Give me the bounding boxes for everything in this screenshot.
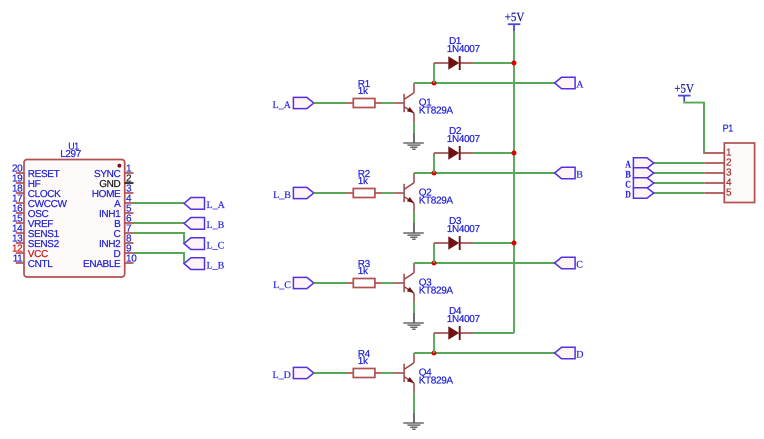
label 1k (R1 value) <box>358 86 369 97</box>
IC U1 pin 8 (INH2) stub + number + name <box>99 234 133 251</box>
svg-text:1k: 1k <box>358 176 369 187</box>
svg-text:L_C: L_C <box>273 280 291 291</box>
net flag A (at P1) <box>625 158 653 171</box>
svg-text:10: 10 <box>126 254 137 265</box>
IC U1 pin 16 (OSC) stub + number + name <box>12 204 49 221</box>
resistor R4 1k <box>347 369 383 378</box>
diode D3 1N4007 <box>434 236 473 250</box>
resistor R1 1k <box>347 99 383 108</box>
net flag L_C (input, stage 3) <box>273 277 314 290</box>
svg-text:A: A <box>576 80 584 91</box>
IC U1 pin 18 (CLOCK) stub + number + name <box>12 184 61 201</box>
ground symbol (stage 4) <box>403 413 424 429</box>
IC U1 pin 12 (VCC) stub + number + name <box>12 244 48 261</box>
label 1N4007 (D3 value) <box>447 224 481 235</box>
connector P1 body <box>724 143 754 203</box>
svg-text:L_A: L_A <box>207 200 226 211</box>
svg-text:+5V: +5V <box>674 82 694 96</box>
label Q2 <box>419 187 432 198</box>
label R3 <box>358 259 371 270</box>
wire Q4 collector node to output flag D <box>414 352 555 354</box>
IC U1 pin 17 (CWCCW) stub + number + name <box>12 194 68 211</box>
label R4 <box>358 349 371 360</box>
label 1k (R4 value) <box>358 356 369 367</box>
wire collector node up to D4 anode <box>433 333 435 353</box>
label 1k (R3 value) <box>358 266 369 277</box>
wire L_A flag to R1 <box>314 102 347 104</box>
IC U1 pin 7 (C) stub + number + name <box>114 224 134 241</box>
wire Q1 collector node to output flag A <box>414 82 555 84</box>
junction Q3 collector node <box>432 261 437 266</box>
power symbol +5V (middle) <box>505 10 525 31</box>
IC U1 pin 20 (RESET) stub + number + name <box>12 164 60 181</box>
svg-text:KT829A: KT829A <box>419 196 454 207</box>
connector P1 pin 4 stub + number <box>704 178 732 189</box>
net flag L_A (input, stage 1) <box>273 97 314 110</box>
wire Q1 emitter to ground <box>413 123 415 134</box>
net flag C (at P1) <box>625 178 653 191</box>
IC U1 pin 11 (CNTL) stub + number + name <box>13 254 54 271</box>
transistor Q4 KT829A (NPN) <box>394 353 414 393</box>
wire IC pin 6 (B) to flag L_B <box>134 222 185 224</box>
wire D3 cathode to +5V rail <box>473 242 514 244</box>
net flag L_B (input, stage 2) <box>273 187 314 200</box>
svg-text:L_C: L_C <box>207 240 225 251</box>
label R2 <box>358 169 371 180</box>
transistor Q1 KT829A (NPN) <box>394 83 414 123</box>
svg-text:1N4007: 1N4007 <box>447 224 481 235</box>
IC U1 pin-1 polarity dot <box>118 164 122 168</box>
wire Q3 emitter to ground <box>413 303 415 314</box>
junction Q2 collector node <box>432 171 437 176</box>
svg-text:1k: 1k <box>358 266 369 277</box>
IC U1 pin 14 (SENS1) stub + number + name <box>12 224 60 241</box>
IC U1 pin 10 (ENABLE) stub + number + name <box>83 254 137 271</box>
svg-text:1k: 1k <box>358 356 369 367</box>
resistor R3 1k <box>347 279 383 288</box>
net flag A (output, stage 1) <box>555 77 585 90</box>
wire +5V to P1 pin 1 <box>684 101 705 153</box>
wire Q2 collector node to output flag B <box>414 172 555 174</box>
svg-text:B: B <box>576 170 583 181</box>
net flag D (output, stage 4) <box>555 347 584 360</box>
wire flag A to P1 pin 2 <box>654 162 705 164</box>
connector P1 reference designator P1 <box>723 123 734 134</box>
svg-text:D: D <box>625 190 631 201</box>
wire Q4 emitter to ground <box>413 393 415 414</box>
transistor Q3 KT829A (NPN) <box>394 263 414 303</box>
junction Q4 collector node <box>432 351 437 356</box>
label KT829A (Q4 value) <box>419 376 454 387</box>
IC U1 pin 4 (A) stub + number + name <box>114 194 133 211</box>
svg-text:KT829A: KT829A <box>419 376 454 387</box>
IC U1 pin 1 (SYNC) stub + number + name <box>94 164 133 181</box>
label 1N4007 (D2 value) <box>447 134 481 145</box>
svg-text:L_A: L_A <box>273 100 292 111</box>
svg-text:L_B: L_B <box>207 220 225 231</box>
transistor Q2 KT829A (NPN) <box>394 173 414 213</box>
IC U1 value L297 <box>60 149 81 160</box>
wire R3 to Q3 base <box>382 282 394 284</box>
svg-text:L297: L297 <box>60 149 81 160</box>
svg-text:1N4007: 1N4007 <box>447 314 481 325</box>
svg-text:CNTL: CNTL <box>28 259 54 270</box>
wire R4 to Q4 base <box>382 372 394 374</box>
svg-text:5: 5 <box>726 188 732 199</box>
svg-text:ENABLE: ENABLE <box>83 259 121 270</box>
IC U1 reference designator U1 <box>68 141 79 152</box>
diode D4 1N4007 <box>434 326 473 340</box>
label D4 <box>449 306 462 317</box>
wire IC pin 4 (A) to flag L_A <box>134 202 185 204</box>
net flag B (output, stage 2) <box>555 167 584 180</box>
svg-text:L_D: L_D <box>273 370 291 381</box>
svg-text:11: 11 <box>13 254 23 265</box>
IC U1 pin 15 (VREF) stub + number + name <box>12 214 53 231</box>
IC U1 L297 body <box>24 160 125 278</box>
label Q3 <box>419 277 432 288</box>
net flag L_B (bottom, at IC) <box>184 258 225 272</box>
net flag C (output, stage 3) <box>555 257 584 270</box>
svg-text:L_B: L_B <box>273 190 291 201</box>
wire IC pin 9 (D) to flag L_B bottom <box>134 253 185 264</box>
junction D2 cathode on +5V rail <box>512 151 517 156</box>
svg-text:L_B: L_B <box>207 260 225 271</box>
diode D1 1N4007 <box>434 56 473 70</box>
wire L_C flag to R3 <box>314 282 347 284</box>
wire flag D to P1 pin 5 <box>654 192 705 194</box>
label 1N4007 (D1 value) <box>447 44 481 55</box>
IC U1 pin 6 (B) stub + number + name <box>114 214 133 231</box>
IC U1 pin 3 (HOME) stub + number + name <box>92 184 134 201</box>
wire L_D flag to R4 <box>314 372 347 374</box>
IC U1 pin 5 (INH1) stub + number + name <box>99 204 133 221</box>
wire Q2 emitter to ground <box>413 213 415 224</box>
label D1 <box>449 36 462 47</box>
wire Q3 collector node to output flag C <box>414 262 555 264</box>
svg-text:P1: P1 <box>723 123 734 134</box>
connector P1 pin 1 stub + number <box>704 148 732 159</box>
label D2 <box>449 126 462 137</box>
label KT829A (Q2 value) <box>419 196 454 207</box>
wire R2 to Q2 base <box>382 192 394 194</box>
connector P1 pin 5 stub + number <box>704 188 732 199</box>
IC U1 pin 19 (HF) stub + number + name <box>12 174 41 191</box>
svg-text:1N4007: 1N4007 <box>447 134 481 145</box>
svg-text:D: D <box>576 350 583 361</box>
label 1k (R2 value) <box>358 176 369 187</box>
diode D2 1N4007 <box>434 146 473 160</box>
wire flag C to P1 pin 4 <box>654 182 705 184</box>
junction D1 cathode on +5V rail <box>512 61 517 66</box>
svg-text:+5V: +5V <box>505 10 525 24</box>
svg-text:KT829A: KT829A <box>419 106 454 117</box>
wire collector node up to D2 anode <box>433 153 435 173</box>
connector P1 pin 3 stub + number <box>704 168 732 179</box>
label D3 <box>449 216 462 227</box>
ground symbol (stage 3) <box>403 313 424 329</box>
net flag D (at P1) <box>625 188 653 201</box>
svg-text:KT829A: KT829A <box>419 286 454 297</box>
net flag L_D (input, stage 4) <box>273 367 314 380</box>
label R1 <box>358 79 371 90</box>
IC U1 pin 2 (GND) stub + number + name <box>99 174 133 191</box>
wire R1 to Q1 base <box>382 102 394 104</box>
label 1N4007 (D4 value) <box>447 314 481 325</box>
junction D3 cathode on +5V rail <box>512 241 517 246</box>
IC U1 pin 9 (D) stub + number + name <box>114 244 134 261</box>
wire flag B to P1 pin 3 <box>654 172 705 174</box>
label KT829A (Q1 value) <box>419 106 454 117</box>
label Q4 <box>419 367 432 378</box>
svg-text:1N4007: 1N4007 <box>447 44 481 55</box>
wire L_B flag to R2 <box>314 192 347 194</box>
net flag L_C (at IC) <box>184 238 225 252</box>
net flag L_A (at IC) <box>184 198 226 212</box>
svg-text:C: C <box>576 260 583 271</box>
svg-text:1k: 1k <box>358 86 369 97</box>
ground symbol (stage 2) <box>403 223 424 239</box>
wire D2 cathode to +5V rail <box>473 152 514 154</box>
wire D4 cathode to +5V rail <box>473 332 514 334</box>
wire IC pin 7 (C) to flag L_C <box>134 233 185 244</box>
power symbol +5V (connector) <box>674 82 694 102</box>
net flag B (at P1) <box>625 168 653 181</box>
label Q1 <box>419 97 432 108</box>
ground symbol (stage 1) <box>403 133 424 149</box>
wire +5V vertical rail (middle) <box>513 31 515 333</box>
wire collector node up to D1 anode <box>433 63 435 83</box>
resistor R2 1k <box>347 189 383 198</box>
label KT829A (Q3 value) <box>419 286 454 297</box>
connector P1 pin 2 stub + number <box>704 158 732 169</box>
IC U1 pin 13 (SENS2) stub + number + name <box>12 234 60 251</box>
wire collector node up to D3 anode <box>433 243 435 263</box>
junction Q1 collector node <box>432 81 437 86</box>
net flag L_B (at IC) <box>184 218 225 232</box>
wire D1 cathode to +5V rail <box>473 62 514 64</box>
